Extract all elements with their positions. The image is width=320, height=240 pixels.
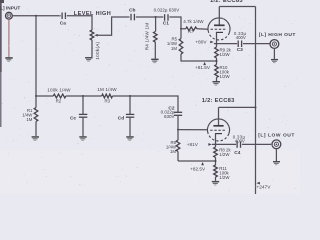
svg-text:1/2: ECC83: 1/2: ECC83 [202, 98, 235, 104]
svg-text:Cc: Cc [70, 115, 76, 121]
wire C4 to LOW OUT jack [242, 143, 272, 145]
svg-text:1/2: ECC83: 1/2: ECC83 [210, 0, 243, 4]
wire rail segment to R2 [36, 95, 53, 97]
ground R11 [212, 181, 219, 186]
svg-text:+81.5V: +81.5V [195, 65, 211, 70]
svg-text:LEVEL HIGH: LEVEL HIGH [74, 11, 111, 17]
label +81.5V with up arrow [195, 62, 211, 70]
U1b plate [213, 107, 223, 125]
U1b grid (dashed) [210, 129, 226, 131]
ground R4 [151, 59, 158, 64]
node Cc junction [82, 95, 84, 97]
ground Cc [79, 136, 86, 141]
svg-text:1M: 1M [170, 149, 176, 154]
potentiometer VR1 100k(A) [90, 30, 100, 60]
ground pot [85, 57, 92, 62]
capacitor C2 0.022u 630V [161, 106, 183, 130]
wire plate to B+ rail [219, 6, 255, 8]
node rail/R1 junction [35, 95, 37, 97]
paper noise speckles [2, 1, 298, 191]
svg-text:+82.5V: +82.5V [190, 167, 206, 172]
capacitor Cd [118, 96, 135, 136]
ground Cd [126, 136, 133, 141]
label +247V with left arrow [256, 182, 271, 191]
resistor R4 1/4W 1M [145, 17, 158, 59]
ground R1 [32, 136, 39, 141]
label +80V with arrow [195, 39, 214, 44]
jack J1 (L) INPUT [0, 5, 20, 19]
svg-text:100k 1/4W: 100k 1/4W [47, 87, 71, 92]
svg-text:R4 1/4W 1M: R4 1/4W 1M [145, 23, 150, 51]
wire input junction down to low-pass rail [35, 16, 37, 96]
resistor R8 2k 1/2W [214, 144, 232, 165]
capacitor C3 0.33u 400V [234, 31, 247, 53]
svg-text:[L] LOW OUT: [L] LOW OUT [258, 133, 295, 139]
svg-text:1/2W: 1/2W [219, 152, 230, 157]
node +81.5V junction [216, 60, 218, 62]
node +80V cathode junction [216, 43, 218, 45]
U1a cathode [216, 32, 223, 43]
svg-text:Cb: Cb [129, 7, 135, 13]
tube U1b 1/2 ECC83 envelope [208, 119, 230, 141]
capacitor Cc [70, 96, 87, 136]
svg-text:R7: R7 [188, 29, 194, 34]
svg-text:100k(A): 100k(A) [95, 41, 100, 59]
jack J3 (L) LOW OUT [258, 133, 295, 149]
wire pot wiper to Cb [98, 17, 130, 35]
node +82.5V junction [215, 160, 217, 162]
tube U1a 1/2 ECC83 envelope [208, 18, 230, 40]
resistor R5 1/4W 1M [167, 29, 183, 54]
svg-text:1M 1/4W: 1M 1/4W [97, 87, 117, 92]
wire Ca to potentiometer top [67, 16, 92, 30]
wire C1 to grid junction [169, 17, 181, 29]
wire R3 to C2 corner [113, 96, 179, 112]
ground J3 [273, 161, 280, 165]
svg-text:[L] HIGH OUT: [L] HIGH OUT [259, 32, 296, 38]
wire input jack to ground [8, 19, 10, 57]
wire J3 to ground [275, 149, 277, 161]
U1a grid (dashed) [211, 28, 227, 30]
jack J2 (L) HIGH OUT [259, 32, 296, 48]
wire C3 to HIGH OUT jack [243, 43, 270, 45]
resistor R3 1M 1/4W [97, 87, 117, 104]
U1b cathode [215, 134, 222, 145]
svg-text:1M: 1M [26, 117, 32, 122]
ground input [5, 57, 12, 62]
svg-text:1/2W: 1/2W [219, 175, 230, 180]
svg-text:630V: 630V [164, 114, 175, 119]
wire J2 to ground [273, 48, 275, 59]
svg-text:C3: C3 [237, 47, 243, 53]
resistor R2 100k 1/4W [47, 87, 71, 103]
node grid junction bottom (C2/R6) [177, 129, 179, 131]
svg-text:+81V: +81V [187, 142, 199, 147]
ground J2 [271, 59, 278, 63]
svg-text:Cd: Cd [118, 115, 124, 121]
node R4 top junction [155, 16, 157, 18]
svg-text:+80V: +80V [195, 39, 207, 44]
node input junction [35, 15, 37, 17]
resistor R9 2k 1/2W [215, 44, 232, 65]
U1a plate [214, 7, 225, 26]
svg-text:400V: 400V [235, 138, 245, 143]
node grid junction (R7/R5) [180, 28, 182, 30]
wire cathode junction to C4 [212, 143, 236, 145]
paper background [0, 0, 300, 194]
wire pot to ground [91, 40, 93, 57]
wire R6 bottom to +82.5V node [178, 160, 216, 162]
wire U1b plate to B+ rail [219, 106, 256, 108]
wire grid junction to U1b grid [178, 129, 208, 131]
wire cathode junction to C3 [214, 43, 237, 45]
resistor R1 1/4W 1M [22, 96, 38, 136]
svg-text:1/2W: 1/2W [220, 52, 231, 57]
resistor R11 100k 1/2W [214, 165, 231, 181]
svg-text:1/2W: 1/2W [220, 74, 231, 79]
left edge scan artifact [0, 0, 2, 72]
svg-text:[L] INPUT: [L] INPUT [0, 5, 20, 11]
wire R5 bottom to +81.5V node [181, 54, 217, 61]
resistor R6 1/4W 1M [166, 130, 180, 161]
node Cd junction [129, 95, 131, 97]
node plate rail junction [255, 106, 257, 108]
svg-text:0.022µ 630V: 0.022µ 630V [154, 7, 180, 12]
label +82.5V with up arrow [190, 162, 206, 172]
capacitor Ca [60, 13, 66, 27]
svg-text:R3: R3 [105, 99, 111, 104]
B+ rail [255, 7, 257, 195]
wire Cb to C1 [136, 16, 164, 18]
svg-text:C4: C4 [234, 150, 240, 156]
svg-text:Ca: Ca [60, 21, 66, 27]
svg-text:R2: R2 [56, 99, 62, 104]
svg-text:400V: 400V [236, 35, 246, 40]
ground R10 [213, 81, 220, 86]
wire input jack to Ca [12, 15, 60, 17]
wire R2 to R3 [66, 95, 102, 97]
label +81V with arrow [187, 142, 212, 147]
svg-text:1M: 1M [171, 46, 177, 51]
svg-text:C1: C1 [163, 21, 169, 27]
capacitor Cb [129, 7, 135, 20]
node +81V cathode junction [215, 143, 217, 145]
capacitor C4 0.33u 400V [233, 134, 246, 156]
resistor R10 100k 1/2W [215, 65, 231, 82]
capacitor C1 [163, 14, 169, 26]
resistor R7 [181, 27, 208, 34]
svg-text:4.7k 1/4W: 4.7k 1/4W [183, 19, 204, 24]
